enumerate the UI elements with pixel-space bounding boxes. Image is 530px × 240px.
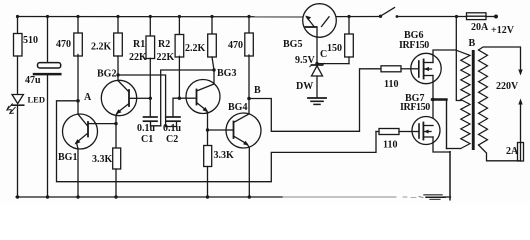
svg-text:R2: R2 — [158, 39, 170, 50]
svg-text:22K: 22K — [157, 52, 175, 63]
svg-text:2A: 2A — [506, 146, 519, 157]
transformer B primary winding — [457, 51, 470, 149]
wire 150 column top — [348, 17, 350, 35]
wire 47u column top — [47, 17, 49, 63]
node BG3 collector — [212, 68, 215, 71]
junction top rail / R2 — [178, 15, 181, 18]
junction top rail / 2.2Kb — [210, 15, 213, 18]
wire node A feedback loop to BG7 gate bus — [57, 101, 377, 182]
transistor BG1 — [63, 114, 98, 149]
svg-text:C2: C2 — [166, 134, 178, 145]
wire lower terminal to fuse 2A — [520, 104, 522, 143]
junction bottom rail / BG1 emitter — [76, 195, 79, 198]
wire into BG2 collector — [117, 75, 119, 81]
wire 150 bottom — [348, 57, 350, 64]
wire BG6 drain to transformer primary top — [433, 50, 456, 63]
wire BG4 base — [208, 129, 227, 131]
wire R1 to node1 — [149, 58, 151, 98]
wire node2 to C2 top — [173, 98, 179, 116]
wire BG1 emitter to bottom rail — [77, 149, 79, 197]
node BG3 emitter / BG4 base — [206, 128, 209, 131]
svg-text:470: 470 — [228, 40, 243, 51]
node BG2 emitter / BG1 base — [114, 122, 117, 125]
fuse 20A — [467, 13, 487, 20]
svg-text:2.2K: 2.2K — [185, 43, 206, 54]
svg-text:220V: 220V — [496, 81, 519, 92]
wire node C to 150 bottom — [317, 63, 349, 65]
svg-text:2.2K: 2.2K — [91, 42, 112, 53]
wire BG3 emitter down — [207, 113, 209, 145]
wire 470a column top — [77, 17, 79, 34]
svg-text:R1: R1 — [133, 39, 145, 50]
svg-text:150: 150 — [327, 43, 342, 54]
svg-text:22K: 22K — [129, 52, 147, 63]
wire BG2 base to R1/C1 node — [137, 97, 151, 99]
switch right contact — [396, 15, 399, 18]
fuse 2A — [518, 143, 524, 162]
svg-text:47u: 47u — [25, 75, 41, 86]
svg-text:+12V: +12V — [491, 25, 515, 36]
svg-text:BG4: BG4 — [228, 102, 247, 113]
switch left contact — [379, 15, 382, 18]
transistor BG4 — [226, 113, 261, 148]
LED D1 — [12, 95, 23, 104]
wire 110b to BG7 gate — [399, 131, 412, 133]
resistor 470a — [74, 33, 83, 56]
svg-text:DW: DW — [296, 81, 313, 92]
wire BG2 emitter down — [115, 116, 117, 148]
wire drop to primary bottom — [446, 100, 448, 149]
resistor R2 22K — [175, 35, 184, 58]
wire 470a to node A — [77, 55, 79, 101]
svg-text:B: B — [469, 38, 476, 49]
resistor 2.2Ka — [114, 33, 123, 56]
transformer secondary winding — [479, 50, 488, 145]
junction top rail / 2.2Ka — [116, 15, 119, 18]
junction top rail / 470b — [247, 15, 250, 18]
junction top rail / 150 — [347, 15, 350, 18]
node R1/C1/BG2 base — [149, 97, 152, 100]
zener diode DW — [312, 64, 323, 66]
junction top rail / R1 — [149, 15, 152, 18]
capacitor C2 — [167, 116, 181, 118]
node R2/C2/BG3 base — [178, 97, 181, 100]
transistor BG2 — [101, 80, 136, 115]
wire BG1 base to BG2 emitter node — [96, 123, 116, 125]
svg-text:LED: LED — [28, 95, 45, 105]
transistor BG3 — [186, 80, 220, 114]
junction bottom rail / 3.3Ka — [114, 195, 117, 198]
wire BG7 source to ground line — [433, 137, 450, 152]
resistor 3.3Kb — [204, 146, 212, 167]
junction top rail / 510 — [16, 15, 19, 18]
svg-text:BG5: BG5 — [283, 39, 302, 50]
+12V terminal dot — [494, 15, 498, 19]
ground below DW — [308, 97, 326, 99]
transformer core — [472, 50, 475, 150]
svg-text:A: A — [84, 92, 92, 103]
svg-text:3.3K: 3.3K — [92, 154, 113, 165]
svg-text:0.1u: 0.1u — [137, 123, 156, 134]
wire 2.2Ka to BG2 collector node — [117, 56, 119, 75]
node B — [247, 97, 251, 101]
mosfet BG7 — [432, 100, 434, 119]
resistor 470b — [245, 33, 254, 56]
svg-text:9.5V: 9.5V — [295, 55, 316, 66]
wire 510 column top — [17, 17, 19, 35]
mosfet BG6 — [411, 53, 441, 83]
wire 2.2Kb column top — [211, 17, 213, 35]
wire R2 column top — [178, 17, 180, 35]
wire primary bottom stub — [447, 148, 461, 150]
wire BG4 emitter to bottom rail — [248, 147, 250, 197]
wire BG2 collector cross-coupling to C1 bottom — [118, 75, 166, 127]
transistor BG5 — [303, 4, 337, 38]
ground symbol at rail end — [424, 194, 442, 196]
wire thick node to primary bottom drop — [432, 98, 447, 100]
wire R2 to node2 — [178, 56, 180, 98]
junction top rail / 47u — [46, 15, 49, 18]
switch S — [382, 8, 395, 16]
svg-text:0.1u: 0.1u — [163, 123, 182, 134]
wire zener to ground — [316, 76, 318, 98]
svg-text:C: C — [320, 49, 327, 60]
wire node A to BG1 collector — [77, 101, 79, 114]
wire 470b column top — [248, 17, 250, 34]
wire node B to BG4 collector — [248, 99, 250, 114]
node BG6 source / BG7 drain — [431, 98, 435, 102]
svg-text:470: 470 — [56, 39, 71, 50]
wire BG3 collector cross-coupling to C2 bottom — [161, 70, 214, 126]
node A — [76, 99, 80, 103]
resistor 3.3Ka — [113, 148, 121, 169]
junction bottom rail / 47u — [46, 195, 49, 198]
wire 3.3Kb to bottom rail — [207, 167, 209, 198]
resistor 2.2Kb — [208, 34, 217, 57]
wire into BG3 collector — [213, 70, 215, 84]
wire 2.2Ka column top — [117, 17, 119, 34]
wire BG3 base to node2 — [179, 97, 186, 99]
wire sources ground drop — [449, 152, 451, 200]
node BG2 collector — [116, 73, 119, 76]
resistor 110b — [379, 129, 399, 135]
wire 47u to bottom rail — [47, 75, 49, 197]
resistor 510 — [14, 34, 23, 57]
svg-text:IRF150: IRF150 — [400, 102, 430, 113]
wire top rail BG5-to-switch — [329, 16, 380, 18]
svg-text:C1: C1 — [141, 134, 153, 145]
wire transformer center tap from +12V — [456, 17, 461, 101]
wire BG6 source down — [432, 76, 434, 100]
wire top rail left section — [18, 16, 308, 18]
resistor R1 22K — [146, 36, 155, 59]
svg-text:510: 510 — [23, 35, 38, 46]
wire 2.2Kb to BG3 collector node — [212, 57, 214, 70]
resistor 150 — [345, 34, 354, 57]
capacitor C1 — [144, 116, 158, 118]
wire R1 column top — [149, 17, 151, 37]
junction bottom rail / BG4 emitter — [248, 195, 251, 198]
wire 110a to BG6 gate — [401, 68, 411, 70]
svg-text:IRF150: IRF150 — [399, 40, 429, 51]
junction bottom rail / 3.3Kb — [206, 195, 209, 198]
bottom rail (ground bus) — [16, 196, 282, 198]
wire node1 to C1 top — [149, 98, 151, 116]
wire fuse to +12V terminal — [486, 16, 496, 18]
capacitor 47u — [38, 63, 61, 68]
junction top rail / transformer center tap — [455, 15, 458, 18]
svg-text:BG2: BG2 — [97, 69, 116, 80]
220V lower terminal — [518, 99, 522, 105]
svg-text:110: 110 — [383, 140, 397, 151]
node C — [315, 62, 318, 65]
svg-text:BG1: BG1 — [58, 152, 77, 163]
wire 510 to LED — [17, 56, 19, 95]
wire 3.3Ka to bottom rail — [115, 169, 117, 197]
svg-text:20A: 20A — [471, 22, 489, 33]
junction top rail / 470a — [76, 15, 79, 18]
svg-text:110: 110 — [384, 79, 398, 90]
wire BG5 base down to node C — [316, 27, 318, 64]
wire 470b to node B — [248, 55, 250, 99]
svg-text:3.3K: 3.3K — [214, 150, 235, 161]
wire switch-to-fuse — [397, 16, 467, 18]
wire secondary bottom loop — [479, 145, 521, 161]
svg-text:BG3: BG3 — [217, 68, 236, 79]
wire node B to BG6 gate bus — [249, 69, 381, 132]
junction bottom rail / LED — [16, 195, 19, 198]
wire secondary top to 220V terminal — [479, 47, 521, 73]
wire LED to bottom rail — [17, 105, 19, 197]
svg-text:B: B — [254, 85, 261, 96]
resistor 110a — [381, 66, 401, 72]
